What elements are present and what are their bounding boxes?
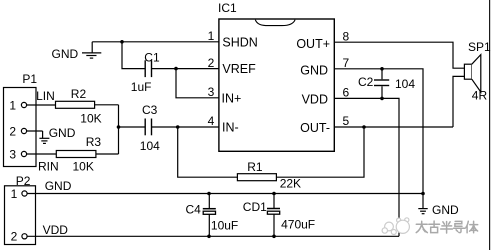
- node junction C2 bottom: [380, 97, 384, 101]
- wire P1-1 to R2: [27, 104, 56, 106]
- connector P1: [4, 88, 37, 167]
- svg-text:104: 104: [395, 77, 415, 91]
- svg-text:10K: 10K: [80, 112, 101, 126]
- svg-text:4: 4: [208, 114, 215, 128]
- watermark logo: [382, 218, 409, 235]
- wire C1 to VREF: [152, 68, 219, 70]
- svg-text:2: 2: [208, 56, 215, 70]
- svg-text:10uF: 10uF: [211, 219, 238, 233]
- capacitor C2: [374, 80, 389, 86]
- svg-text:GND: GND: [300, 64, 328, 78]
- ground (P1 pin2): [39, 131, 49, 143]
- svg-text:R2: R2: [71, 87, 87, 101]
- connector P2: [5, 186, 36, 245]
- capacitor C1: [145, 60, 151, 77]
- svg-text:1uF: 1uF: [131, 80, 152, 94]
- svg-text:OUT-: OUT-: [300, 121, 330, 135]
- svg-text:1: 1: [208, 29, 215, 43]
- wire P1-2 to gnd: [27, 130, 43, 132]
- wire speaker bottom lead: [453, 76, 464, 127]
- node junction GND bus: [421, 192, 425, 196]
- capacitor C4: [203, 194, 216, 237]
- IC1 body: [219, 19, 334, 151]
- pin numbers: [208, 29, 350, 128]
- wire R3 right: [96, 153, 119, 155]
- node junction R1/OUT-: [362, 125, 366, 129]
- right image border: [489, 0, 491, 250]
- wire R1 right: [276, 127, 364, 177]
- svg-text:IN+: IN+: [222, 91, 242, 105]
- capacitor C3: [145, 119, 151, 136]
- svg-text:OUT+: OUT+: [296, 37, 330, 51]
- svg-text:P2: P2: [16, 174, 31, 188]
- svg-text:10K: 10K: [73, 159, 94, 173]
- resistor R3: [56, 151, 96, 158]
- node junction C4: [207, 192, 211, 196]
- svg-text:VDD: VDD: [302, 93, 328, 107]
- wire IN- down to R1: [178, 127, 238, 177]
- wire to C3: [119, 126, 145, 128]
- speaker SP1: [464, 55, 480, 92]
- node junction C1/SHDN: [120, 40, 124, 44]
- wire GND (pin7): [334, 69, 423, 209]
- wire C1 branch: [122, 42, 145, 69]
- svg-text:SP1: SP1: [468, 40, 491, 54]
- svg-text:104: 104: [140, 139, 160, 153]
- IC1 notch: [255, 20, 295, 26]
- node junction IN-/R1: [176, 125, 180, 129]
- wire OUT+ (pin8): [334, 42, 464, 68]
- svg-text:3: 3: [208, 85, 215, 99]
- ground (bottom-right): [418, 209, 427, 214]
- svg-text:7: 7: [343, 56, 350, 70]
- svg-text:22K: 22K: [280, 176, 301, 190]
- IC pin names: [222, 35, 331, 135]
- wire VREF to IN+: [176, 69, 219, 98]
- svg-text:5: 5: [343, 114, 350, 128]
- wire P1-3 to R3: [27, 153, 57, 155]
- svg-text:IC1: IC1: [218, 1, 237, 15]
- svg-text:LIN: LIN: [36, 89, 55, 103]
- wire GND bus: [27, 193, 423, 195]
- wire join R2/R3: [118, 105, 120, 154]
- svg-text:RIN: RIN: [38, 159, 59, 173]
- resistor R2: [56, 101, 95, 108]
- svg-text:CD1: CD1: [243, 200, 267, 214]
- ground (top-left): [82, 42, 101, 58]
- wire C3 to IN-: [152, 126, 219, 128]
- wire VDD (pin6): [334, 98, 399, 236]
- svg-text:6: 6: [343, 86, 350, 100]
- svg-text:C4: C4: [186, 202, 202, 216]
- svg-text:470uF: 470uF: [281, 218, 315, 232]
- svg-text:GND: GND: [432, 203, 459, 217]
- svg-text:VREF: VREF: [222, 62, 256, 76]
- svg-text:8: 8: [343, 29, 350, 43]
- connector pin numbers: [9, 98, 17, 243]
- svg-text:1: 1: [9, 98, 16, 112]
- svg-text:3: 3: [9, 147, 16, 161]
- svg-text:4R: 4R: [472, 89, 488, 103]
- svg-text:2: 2: [9, 124, 16, 138]
- node junction CD1: [272, 192, 276, 196]
- capacitor CD1: [267, 194, 280, 237]
- wire OUT- (pin5): [334, 126, 453, 128]
- svg-text:SHDN: SHDN: [222, 35, 257, 49]
- svg-text:P1: P1: [22, 72, 37, 86]
- node junction C2 top: [380, 67, 384, 71]
- svg-text:1: 1: [11, 187, 18, 201]
- wire VDD bus: [27, 235, 399, 237]
- svg-text:C3: C3: [142, 103, 158, 117]
- wire C2 stubs: [381, 69, 383, 99]
- resistor R1: [237, 174, 276, 181]
- svg-text:GND: GND: [45, 179, 72, 193]
- svg-text:C2: C2: [358, 75, 374, 89]
- wire pin1 SHDN net: [92, 41, 219, 43]
- svg-text:2: 2: [11, 230, 18, 244]
- node junction input: [117, 125, 121, 129]
- wire R2 right: [95, 104, 119, 106]
- svg-text:R1: R1: [247, 160, 263, 174]
- svg-text:C1: C1: [144, 51, 160, 65]
- svg-text:VDD: VDD: [43, 223, 69, 237]
- svg-text:IN-: IN-: [222, 121, 239, 135]
- svg-text:GND: GND: [52, 47, 79, 61]
- watermark text 太古半导体: [416, 221, 478, 233]
- svg-text:R3: R3: [86, 135, 102, 149]
- node junction VREF/IN+: [174, 67, 178, 71]
- svg-text:GND: GND: [49, 126, 76, 140]
